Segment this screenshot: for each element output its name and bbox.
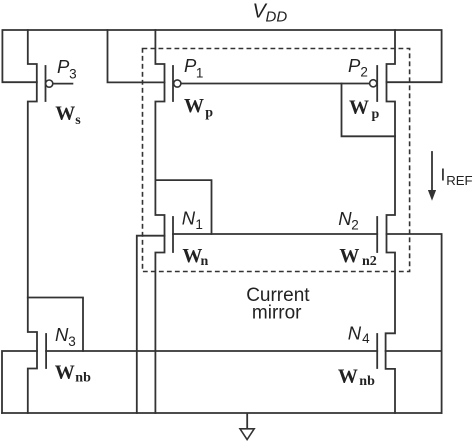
svg-text:W: W <box>55 362 75 384</box>
svg-text:N: N <box>348 322 362 343</box>
svg-text:n2: n2 <box>362 254 377 269</box>
svg-text:W: W <box>349 96 369 118</box>
svg-text:n: n <box>201 254 209 269</box>
svg-text:2: 2 <box>360 65 368 80</box>
svg-text:p: p <box>372 107 380 122</box>
svg-text:nb: nb <box>75 371 91 386</box>
svg-text:3: 3 <box>69 66 77 81</box>
svg-text:1: 1 <box>195 217 203 232</box>
svg-text:W: W <box>184 95 204 117</box>
svg-text:P: P <box>57 56 70 77</box>
svg-text:p: p <box>205 105 213 120</box>
svg-text:N: N <box>182 208 196 229</box>
svg-text:W: W <box>55 102 75 124</box>
svg-text:W: W <box>338 365 358 387</box>
svg-text:2: 2 <box>351 218 359 233</box>
svg-text:1: 1 <box>196 65 204 80</box>
svg-text:4: 4 <box>362 331 370 346</box>
svg-text:DD: DD <box>266 9 288 26</box>
svg-text:P: P <box>348 55 361 76</box>
svg-text:nb: nb <box>359 374 375 389</box>
svg-text:W: W <box>182 245 202 267</box>
svg-text:REF: REF <box>446 173 472 188</box>
svg-text:N: N <box>338 208 352 229</box>
svg-text:mirror: mirror <box>252 303 302 324</box>
svg-text:N: N <box>55 324 69 345</box>
svg-text:W: W <box>339 245 359 267</box>
svg-text:s: s <box>75 113 81 128</box>
svg-text:I: I <box>441 164 446 184</box>
svg-text:3: 3 <box>68 334 76 349</box>
